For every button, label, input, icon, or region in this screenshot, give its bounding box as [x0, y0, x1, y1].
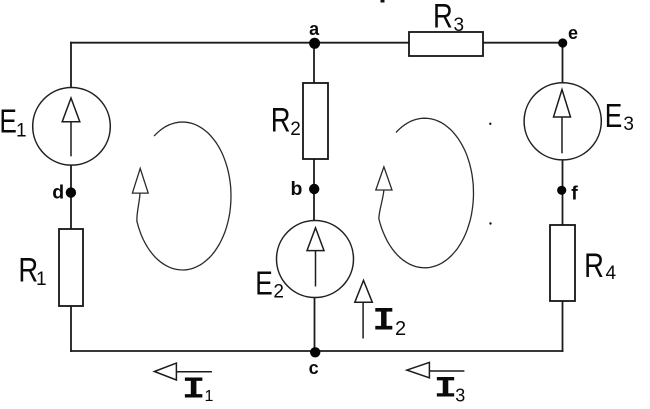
svg-text:3: 3 [454, 15, 465, 36]
svg-text:a: a [309, 19, 320, 39]
svg-text:3: 3 [455, 385, 465, 405]
svg-text:c: c [309, 358, 319, 378]
svg-text:1: 1 [36, 269, 47, 290]
svg-text:e: e [568, 23, 578, 43]
svg-text:2: 2 [273, 282, 284, 303]
svg-text:E: E [255, 264, 273, 301]
svg-text:2: 2 [395, 318, 406, 340]
svg-text:b: b [291, 178, 303, 200]
svg-text:I: I [372, 303, 395, 340]
svg-text:E: E [0, 102, 17, 139]
svg-text:R: R [433, 0, 453, 36]
svg-text:R: R [271, 101, 291, 139]
svg-text:4: 4 [606, 263, 617, 284]
svg-text:E: E [605, 97, 623, 134]
svg-text:I: I [434, 372, 457, 406]
svg-text:d: d [52, 182, 64, 204]
svg-text:I: I [182, 372, 205, 407]
svg-text:f: f [571, 182, 578, 204]
svg-text:3: 3 [623, 114, 634, 135]
svg-text:1: 1 [16, 120, 27, 141]
svg-text:1: 1 [205, 388, 214, 405]
svg-text:2: 2 [290, 119, 301, 140]
svg-text:R: R [584, 247, 604, 285]
